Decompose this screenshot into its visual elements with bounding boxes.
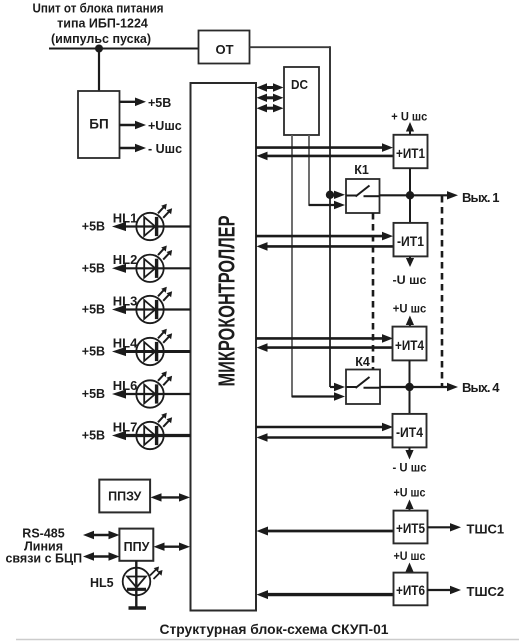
block +ИТ6 bbox=[394, 573, 428, 606]
wire DC drop 1 to K4 bbox=[292, 135, 345, 401]
wire RS-485 to ППУ lower bbox=[83, 552, 120, 560]
svg-text:+5В: +5В bbox=[82, 429, 105, 443]
svg-text:Вых. 4: Вых. 4 bbox=[462, 380, 500, 395]
svg-text:HL1: HL1 bbox=[113, 210, 138, 225]
node Uпит label bbox=[33, 2, 164, 47]
wire K1 to Вых.1 bbox=[380, 191, 459, 199]
svg-text:ОТ: ОТ bbox=[215, 42, 233, 57]
svg-text:ППУ: ППУ bbox=[124, 540, 150, 554]
wire +Uшс to +ИТ4 bbox=[406, 316, 414, 327]
svg-text:+ИТ6: +ИТ6 bbox=[396, 583, 425, 598]
block +ИТ5 bbox=[394, 511, 428, 544]
svg-text:+5В: +5В bbox=[82, 345, 105, 359]
wire +ИТ4 to MCU bbox=[257, 343, 394, 352]
svg-text:DC: DC bbox=[291, 77, 309, 92]
wire БП +Uшс bbox=[120, 121, 147, 130]
wire -ИТ4 to MCU bbox=[257, 433, 394, 442]
wire +ИТ5 to ТШС1 bbox=[428, 523, 462, 531]
wire -ИТ4 to -Uшс bbox=[405, 447, 413, 459]
svg-text:+U шс: +U шс bbox=[394, 486, 426, 500]
svg-text:HL6: HL6 bbox=[113, 378, 138, 393]
svg-text:Вых. 1: Вых. 1 bbox=[462, 190, 500, 205]
svg-text:-U шс: -U шс bbox=[393, 273, 427, 287]
wire +Uшс to +ИТ6 bbox=[405, 563, 413, 573]
wire +Uшс to +ИТ5 bbox=[405, 500, 413, 511]
svg-text:HL5: HL5 bbox=[90, 576, 114, 590]
block -ИТ1 bbox=[394, 223, 428, 257]
svg-text:МИКРОКОНТРОЛЛЕР: МИКРОКОНТРОЛЛЕР bbox=[214, 216, 240, 387]
svg-text:(импульс пуска): (импульс пуска) bbox=[51, 32, 151, 46]
block ОТ bbox=[199, 31, 250, 64]
svg-text:Uпит от блока питания: Uпит от блока питания bbox=[33, 2, 164, 16]
svg-text:+ИТ1: +ИТ1 bbox=[396, 146, 425, 161]
LED HL7 bbox=[112, 413, 191, 449]
LED HL1 bbox=[112, 204, 191, 241]
block +ИТ4 bbox=[393, 327, 427, 361]
svg-text:+5В: +5В bbox=[148, 96, 171, 110]
LED HL5 bbox=[123, 567, 163, 596]
wire -ИТ1 to MCU bbox=[257, 242, 394, 251]
wire dashed K1 to K4 bbox=[372, 213, 375, 370]
LED HL6 bbox=[112, 371, 191, 407]
svg-text:+ИТ4: +ИТ4 bbox=[395, 338, 424, 353]
svg-text:HL3: HL3 bbox=[113, 293, 138, 308]
wire +ИТ6 to ТШС2 bbox=[428, 586, 462, 594]
wire +ИТ1 to MCU bbox=[257, 152, 394, 161]
block ППЗУ bbox=[99, 480, 150, 513]
svg-text:HL7: HL7 bbox=[113, 419, 138, 434]
ground bbox=[129, 606, 147, 609]
svg-text:+5В: +5В bbox=[82, 387, 105, 401]
svg-text:К1: К1 bbox=[354, 163, 369, 177]
wire +ИТ4 to Вых.4 junction bbox=[409, 360, 411, 414]
wire MCU to -ИТ4 bbox=[256, 423, 393, 432]
junction Вых.4 bbox=[405, 383, 413, 391]
junction Вых.1 bbox=[406, 191, 414, 199]
svg-text:+U шс: +U шс bbox=[394, 549, 426, 563]
wire power input horizontal bbox=[49, 48, 199, 50]
wire page bottom rule bbox=[16, 639, 519, 641]
wire БП -Uшс bbox=[120, 144, 147, 153]
LED HL2 bbox=[112, 246, 191, 283]
block ППУ bbox=[119, 529, 153, 561]
svg-text:HL2: HL2 bbox=[113, 252, 138, 267]
svg-text:ППЗУ: ППЗУ bbox=[108, 490, 141, 504]
svg-text:ТШС2: ТШС2 bbox=[467, 584, 505, 599]
block +ИТ1 bbox=[394, 135, 428, 168]
wire MCU-DC bus 3 bbox=[257, 104, 284, 112]
svg-text:+U шс: +U шс bbox=[393, 302, 427, 316]
relay K1 bbox=[346, 179, 380, 213]
wire -ИТ1 to -Uшс bbox=[406, 256, 414, 267]
svg-text:+5В: +5В bbox=[82, 303, 105, 317]
wire ОТ line to K4 bbox=[330, 383, 345, 391]
relay K4 bbox=[346, 370, 380, 405]
wire MCU to +ИТ1 bbox=[256, 143, 393, 152]
wire ППУ to ground bbox=[135, 561, 137, 607]
wire +ИТ1 to +Uшс bbox=[406, 122, 414, 135]
svg-text:HL4: HL4 bbox=[113, 335, 138, 350]
junction power input to БП bbox=[95, 45, 103, 53]
junction ОТ line to K1 bbox=[326, 191, 334, 199]
wire K4 to Вых.4 bbox=[380, 383, 458, 391]
wire ППУ to MCU bbox=[154, 543, 191, 551]
wire MCU-DC bus 1 bbox=[257, 83, 284, 91]
svg-text:К4: К4 bbox=[355, 355, 370, 369]
wire MCU to -ИТ1 bbox=[256, 232, 393, 241]
wire dashed Вых.1 to Вых.4 bbox=[441, 196, 444, 387]
wire БП +5В bbox=[120, 98, 147, 107]
block DC bbox=[284, 67, 319, 135]
svg-text:типа ИБП-1224: типа ИБП-1224 bbox=[57, 17, 148, 31]
svg-text:+ИТ5: +ИТ5 bbox=[396, 521, 425, 536]
wire ППЗУ to MCU bbox=[151, 493, 191, 501]
svg-text:связи с БЦП: связи с БЦП bbox=[5, 551, 82, 565]
svg-text:-ИТ4: -ИТ4 bbox=[396, 425, 423, 440]
svg-text:БП: БП bbox=[89, 117, 108, 132]
wire MCU to +ИТ4 bbox=[256, 334, 393, 343]
wire ОТ to K1/K4 bbox=[250, 46, 331, 387]
wire +ИТ5 to MCU bbox=[257, 527, 394, 536]
block -ИТ4 bbox=[393, 414, 427, 448]
wire junction to БП bbox=[98, 49, 100, 92]
svg-text:+5В: +5В bbox=[82, 220, 105, 234]
wire +ИТ1 to Вых.1 junction bbox=[409, 168, 411, 223]
LED HL4 bbox=[112, 329, 191, 365]
svg-text:Структурная блок-схема СКУП-01: Структурная блок-схема СКУП-01 bbox=[160, 621, 389, 637]
wire DC drop 2 to K1 bbox=[309, 135, 345, 209]
wire RS-485 to ППУ upper bbox=[83, 531, 120, 539]
svg-text:-ИТ1: -ИТ1 bbox=[397, 234, 424, 249]
wire MCU-DC bus 2 bbox=[257, 94, 284, 102]
LED HL3 bbox=[112, 287, 191, 323]
svg-text:- U шс: - U шс bbox=[393, 461, 427, 475]
block МИКРОКОНТРОЛЛЕР U1 bbox=[191, 83, 257, 611]
wire junction to K1 bbox=[330, 191, 345, 199]
svg-text:+ U шс: + U шс bbox=[391, 109, 427, 123]
svg-text:+5В: +5В bbox=[82, 262, 105, 276]
svg-text:ТШС1: ТШС1 bbox=[467, 522, 505, 537]
node RS-485 label bbox=[5, 527, 82, 566]
svg-text:+Uшс: +Uшс bbox=[148, 119, 182, 133]
wire +ИТ6 to MCU bbox=[257, 590, 394, 599]
block БП bbox=[78, 91, 120, 158]
svg-text:- Uшс: - Uшс bbox=[148, 142, 182, 156]
